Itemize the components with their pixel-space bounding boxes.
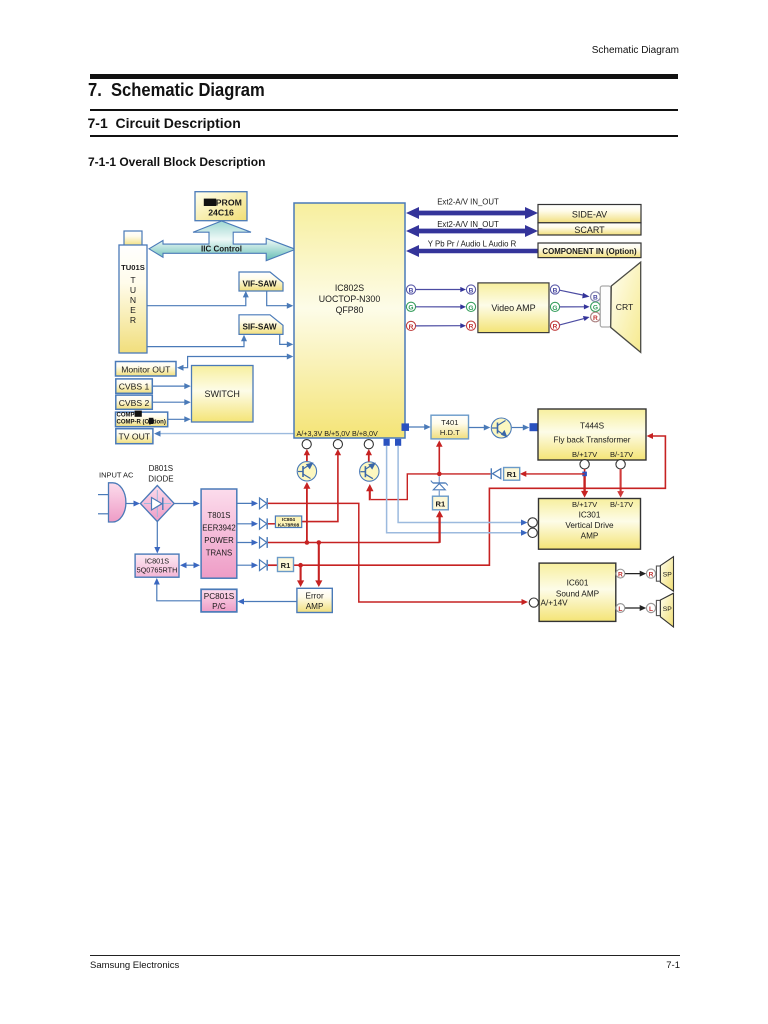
- pin B/-17V of T444S: [616, 460, 625, 469]
- resistor R1 (HDT bias): [433, 496, 449, 510]
- connector SIDE-AV: [538, 205, 641, 223]
- svg-text:R1: R1: [281, 561, 291, 570]
- wire R to speaker: [625, 571, 646, 577]
- footer left: [90, 960, 179, 971]
- rectifier diode rail3: [260, 537, 268, 548]
- resistor R1 (rail4): [278, 558, 294, 572]
- wire CVBS1 to switch: [152, 383, 191, 389]
- svg-text:PC801S: PC801S: [204, 592, 235, 601]
- wire T801S secondary 3: [237, 540, 258, 546]
- IC802S UOCTOP-N300: [294, 203, 405, 438]
- wire T801S secondary 1: [237, 500, 258, 506]
- wire B to CRT: [560, 290, 590, 298]
- wire node A up to T401: [436, 440, 443, 474]
- sif-saw filter: [239, 315, 283, 335]
- wire rail4 to T444S B+ feed: [294, 433, 666, 565]
- svg-text:TRANS: TRANS: [206, 549, 232, 558]
- photocoupler PC801S: [201, 589, 237, 612]
- svg-text:B/+17V: B/+17V: [572, 450, 598, 459]
- svg-text:D801S: D801S: [149, 464, 173, 473]
- wire IC802S to T401: [409, 424, 431, 430]
- wire vertical drive 2 to IC301: [398, 446, 527, 526]
- svg-text:QFP80: QFP80: [336, 305, 364, 315]
- eeprom U-EEPROM 24C16: [195, 192, 247, 221]
- svg-text:R: R: [130, 315, 136, 325]
- transformer T401 H.D.T: [431, 415, 469, 439]
- svg-text:E: E: [130, 305, 136, 315]
- wire tuner to SIF-SAW: [147, 335, 247, 347]
- svg-text:COMP-R (Option): COMP-R (Option): [117, 420, 166, 426]
- svg-text:B/+17V: B/+17V: [572, 500, 598, 509]
- svg-text:Ext2-A/V IN_OUT: Ext2-A/V IN_OUT: [437, 220, 499, 229]
- svg-text:COMPONENT IN (Option): COMPONENT IN (Option): [542, 247, 637, 256]
- rectifier diode rail2: [260, 518, 268, 529]
- svg-text:G: G: [593, 305, 598, 312]
- svg-text:B: B: [553, 287, 558, 294]
- wire rail3 branch down to error amp: [315, 543, 322, 588]
- wire VIF-SAW to IC802S: [267, 291, 294, 309]
- svg-text:SP: SP: [663, 606, 673, 613]
- connector COMPONENT IN (Option): [538, 243, 641, 258]
- bridge diode D801S: [140, 486, 174, 522]
- svg-text:SCART: SCART: [574, 225, 605, 235]
- junction on rail3 at Q1: [305, 540, 310, 545]
- svg-text:VIF-SAW: VIF-SAW: [242, 280, 276, 289]
- wire B/-17V to IC301: [617, 469, 624, 498]
- svg-text:Vertical Drive: Vertical Drive: [565, 521, 614, 530]
- IIC control bus arrow: [149, 221, 296, 261]
- wire IC802S to TV OUT: [154, 431, 294, 437]
- pin R into CRT: [591, 312, 601, 322]
- CRT funnel: [611, 262, 641, 352]
- svg-text:SIF-SAW: SIF-SAW: [242, 323, 276, 332]
- transistor Q1 (3.3V regulator): [297, 462, 316, 481]
- svg-text:Sound AMP: Sound AMP: [556, 590, 600, 599]
- svg-text:R: R: [553, 324, 558, 331]
- pin A/+14V of IC601: [529, 598, 538, 607]
- pin B/+8.0V of IC802S: [364, 440, 373, 449]
- bus arrow Ext2-A/V IN_OUT (to SIDE-AV): [406, 198, 538, 220]
- svg-text:H.D.T: H.D.T: [440, 428, 460, 437]
- svg-text:Monitor OUT: Monitor OUT: [121, 364, 171, 374]
- page header running title: [0, 45, 679, 56]
- svg-text:5Q0765RTH: 5Q0765RTH: [137, 566, 178, 575]
- wire CVBS2 to switch: [152, 399, 191, 405]
- svg-text:G: G: [468, 305, 473, 312]
- svg-text:SP: SP: [663, 572, 673, 579]
- error amp: [297, 588, 332, 612]
- pin L at speaker: [646, 603, 655, 613]
- svg-text:CVBS 2: CVBS 2: [119, 398, 150, 408]
- wire Q-HDT to T444S: [512, 425, 530, 431]
- svg-text:B: B: [469, 287, 474, 294]
- pin vertical drive input 1 of IC301: [528, 518, 537, 527]
- power transformer T801S EER3942: [201, 489, 237, 578]
- svg-text:B: B: [593, 295, 598, 302]
- svg-text:CVBS 1: CVBS 1: [119, 382, 150, 392]
- svg-text:CRT: CRT: [616, 302, 634, 312]
- svg-text:G: G: [552, 305, 557, 312]
- wire rail3 up into R1 bias: [268, 511, 443, 543]
- wire IC801S to T801S (bidirectional): [180, 562, 200, 568]
- wire COMP to switch: [168, 416, 191, 422]
- connector SCART: [538, 223, 641, 235]
- svg-text:Y Pb Pr / Audio L Audio R: Y Pb Pr / Audio L Audio R: [428, 239, 517, 248]
- pin R at speaker: [646, 569, 655, 579]
- vertical drive amp IC301: [539, 499, 641, 550]
- svg-text:IC801S: IC801S: [145, 557, 169, 566]
- svg-text:UOCTOP-N300: UOCTOP-N300: [319, 294, 381, 304]
- bus arrow Y Pb Pr / Audio L Audio R: [406, 239, 538, 257]
- wire IC802S to Monitor OUT: [177, 354, 293, 371]
- bus arrow Ext2-A/V IN_OUT (to SCART): [406, 220, 538, 237]
- wire plug to D801S: [126, 501, 141, 507]
- wire D801S to T801S: [174, 501, 200, 507]
- pin square IC802S to T401: [402, 423, 410, 431]
- pin G out of video amp: [550, 302, 559, 312]
- pin A/+3.3V of IC802S: [302, 440, 311, 449]
- wire rail4 into R1: [268, 564, 278, 566]
- wire sense node to T401 base node: [441, 473, 491, 475]
- svg-text:INPUT AC: INPUT AC: [99, 470, 134, 479]
- wire B/+17V node to R1 sense: [520, 471, 585, 477]
- box COMP-L COMP-R (Option): [116, 411, 168, 427]
- svg-text:24C16: 24C16: [208, 208, 234, 218]
- flyback transformer T444S: [538, 409, 646, 460]
- junction node A (HDT drive): [437, 472, 442, 477]
- svg-text:IC601: IC601: [567, 579, 589, 588]
- svg-text:U: U: [130, 285, 136, 295]
- rectifier diode rail4: [260, 560, 268, 571]
- svg-text:N: N: [130, 295, 136, 305]
- wire tuner to VIF-SAW: [147, 291, 249, 306]
- svg-text:B/-17V: B/-17V: [610, 500, 634, 509]
- svg-text:Video AMP: Video AMP: [491, 303, 535, 313]
- svg-text:A/+3,3V B/+5,0V B/+8,0V: A/+3,3V B/+5,0V B/+8,0V: [297, 429, 379, 438]
- transistor Q2 (8V regulator): [360, 462, 379, 481]
- wire L to speaker: [625, 605, 646, 611]
- pin G into video amp: [466, 302, 475, 312]
- svg-text:R1: R1: [507, 470, 517, 479]
- sub-subsection title: [88, 155, 265, 169]
- svg-text:R: R: [409, 324, 414, 331]
- svg-text:IIC Control: IIC Control: [201, 244, 242, 253]
- resistor R1 (sense, with diode): [491, 468, 519, 481]
- wire T801S secondary 4: [237, 562, 258, 568]
- wire G to video amp: [416, 304, 466, 309]
- svg-text:DIODE: DIODE: [148, 475, 173, 484]
- pin vertical drive input 2 of IC301: [528, 528, 537, 537]
- rule under subsection: [90, 135, 678, 137]
- box SWITCH: [192, 366, 254, 423]
- tuner TU01S: [119, 231, 147, 353]
- svg-text:R: R: [593, 315, 598, 322]
- wire R to video amp: [416, 323, 466, 328]
- sound amp IC601: [539, 563, 616, 621]
- pin R out of IC802S: [406, 321, 415, 331]
- pin B out of IC802S: [406, 285, 415, 295]
- svg-text:Ext2-A/V IN_OUT: Ext2-A/V IN_OUT: [437, 198, 499, 207]
- wire rail2 to B/+5.0V pin: [268, 449, 341, 524]
- svg-text:Error: Error: [305, 591, 323, 600]
- switching IC801S 5Q0765RTH: [135, 554, 179, 577]
- box CVBS 1: [116, 379, 153, 393]
- junction node on B/+17V rail: [582, 472, 587, 477]
- wire rail1 to sound amp A/+14V: [268, 503, 528, 605]
- svg-text:P/C: P/C: [212, 602, 226, 611]
- wire rail4 branch down to error amp: [297, 565, 304, 587]
- header thick rule: [90, 74, 678, 79]
- video amp U-VideoAMP: [478, 283, 549, 333]
- box Monitor OUT: [116, 362, 177, 377]
- svg-text:R: R: [649, 572, 654, 579]
- vif-saw filter: [239, 272, 283, 291]
- pin R into video amp: [466, 321, 475, 331]
- transistor Q-HDT: [491, 418, 511, 438]
- wire B/+17V to IC301: [581, 469, 588, 498]
- svg-text:T444S: T444S: [580, 422, 605, 431]
- svg-text:L: L: [649, 606, 653, 613]
- pin square vertical drive 1: [384, 439, 390, 446]
- rectifier diode rail1: [260, 498, 268, 509]
- speaker SP right: [656, 557, 673, 592]
- svg-text:TU01S: TU01S: [121, 263, 145, 272]
- svg-text:SWITCH: SWITCH: [204, 389, 240, 399]
- section title: [88, 80, 265, 101]
- svg-text:R1: R1: [436, 500, 446, 509]
- pin R out of IC601: [616, 569, 625, 578]
- svg-text:A/+14V: A/+14V: [541, 599, 569, 608]
- rule under title: [90, 109, 678, 111]
- svg-text:R: R: [469, 324, 474, 331]
- wire D801S to IC801S: [154, 522, 160, 554]
- svg-text:Fly back Transformer: Fly back Transformer: [554, 436, 631, 445]
- speaker SP left: [656, 593, 673, 627]
- footer rule: [90, 955, 680, 956]
- pin B/+5.0V of IC802S: [333, 440, 342, 449]
- pin B into video amp: [466, 285, 475, 295]
- regulator IC804 KA78R08: [275, 516, 301, 529]
- box TV OUT: [116, 429, 153, 444]
- pin square vertical drive 2: [395, 439, 401, 446]
- svg-text:IC802S: IC802S: [335, 283, 364, 293]
- wire SIF-SAW to IC802S: [280, 334, 294, 347]
- wire T401 to Q-HDT: [469, 425, 491, 431]
- svg-text:SIDE-AV: SIDE-AV: [572, 209, 607, 219]
- wire B to video amp: [416, 287, 466, 292]
- wire vertical drive 1 to IC301: [387, 446, 528, 536]
- pin G out of IC802S: [406, 302, 415, 312]
- wire error amp to PC801S: [238, 599, 297, 605]
- wire T801S secondary 2: [237, 521, 258, 527]
- pin L out of IC601: [616, 604, 625, 613]
- svg-text:POWER: POWER: [204, 536, 234, 545]
- wire Q2 to B/+8.0V pin: [366, 449, 372, 462]
- wire PC801S to IC801S: [154, 578, 201, 601]
- wire node A to transistor Q2: [366, 474, 439, 500]
- pin B into CRT: [591, 292, 601, 302]
- svg-text:G: G: [408, 305, 413, 312]
- AC plug: [98, 483, 126, 522]
- svg-text:T401: T401: [441, 418, 458, 427]
- wire R to CRT: [560, 316, 590, 325]
- svg-text:AMP: AMP: [581, 532, 599, 541]
- svg-text:L: L: [618, 606, 622, 613]
- wire Q1 collector chain to A/+3.3V pin: [303, 449, 310, 543]
- box CVBS 2: [116, 395, 153, 409]
- svg-text:T: T: [130, 275, 136, 285]
- footer page number: [0, 960, 680, 971]
- subsection title: [88, 115, 241, 131]
- pin B out of video amp: [550, 285, 559, 295]
- svg-text:IC804: IC804: [282, 517, 295, 523]
- svg-text:AMP: AMP: [306, 602, 324, 611]
- junction on rail3 at error amp branch: [317, 540, 322, 545]
- zener diode below node A: [431, 477, 448, 497]
- svg-text:B: B: [409, 287, 414, 294]
- CRT neck: [600, 286, 610, 327]
- pin R out of video amp: [550, 321, 559, 331]
- svg-text:B/-17V: B/-17V: [610, 450, 634, 459]
- svg-text:TV OUT: TV OUT: [119, 432, 151, 442]
- svg-text:IC301: IC301: [579, 511, 601, 520]
- junction on rail4 at error amp branch: [298, 563, 303, 568]
- pin B/+17V of T444S: [580, 460, 589, 469]
- svg-text:EER3942: EER3942: [202, 524, 235, 533]
- wire G to CRT: [560, 304, 590, 309]
- svg-text:R: R: [618, 572, 623, 579]
- pin G into CRT: [591, 302, 601, 312]
- svg-text:T801S: T801S: [208, 511, 231, 520]
- label D801S DIODE: [148, 464, 173, 484]
- pin square T444S input: [530, 423, 538, 431]
- svg-text:KA78R08: KA78R08: [278, 523, 300, 529]
